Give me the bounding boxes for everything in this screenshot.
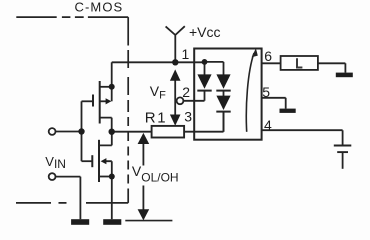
svg-text:4: 4 <box>264 117 272 133</box>
svg-text:5: 5 <box>262 84 270 100</box>
svg-text:2: 2 <box>182 84 190 100</box>
svg-text:R1: R1 <box>145 109 167 126</box>
svg-text:+Vcc: +Vcc <box>189 24 221 40</box>
svg-text:C-MOS: C-MOS <box>75 0 124 15</box>
svg-text:1: 1 <box>182 46 190 62</box>
svg-text:3: 3 <box>184 108 192 124</box>
svg-text:VIN: VIN <box>45 154 66 171</box>
svg-text:6: 6 <box>264 48 272 64</box>
